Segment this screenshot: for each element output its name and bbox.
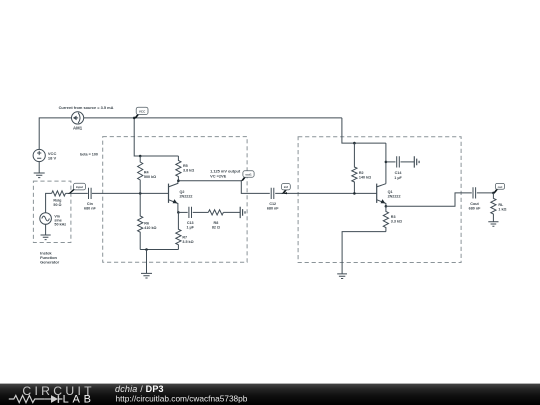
svg-text:C12: C12: [269, 202, 276, 206]
sideways ground after R8: [240, 207, 245, 218]
svg-text:RL: RL: [498, 203, 504, 207]
svg-text:out1: out1: [245, 173, 252, 177]
resistor R2 140k: [352, 143, 371, 193]
capacitor C13 1uF: [178, 207, 208, 230]
svg-text:3.5 kΩ: 3.5 kΩ: [182, 240, 193, 244]
net flag input: [68, 183, 86, 194]
svg-text:AM1: AM1: [73, 125, 83, 130]
svg-text:50 Ω: 50 Ω: [53, 203, 61, 207]
resistor R4 500k: [138, 156, 157, 193]
svg-text:3.3 kΩ: 3.3 kΩ: [391, 220, 402, 224]
ground under VCC source: [34, 162, 45, 178]
node Q1 emitter: [385, 205, 388, 208]
svg-text:input: input: [76, 185, 83, 189]
svg-text:680 nF: 680 nF: [469, 207, 481, 211]
capacitor Cout 680nF: [469, 187, 481, 210]
resistor RL 1k: [491, 193, 507, 222]
wire VCC drop into stage 2: [342, 118, 386, 143]
svg-text:680 nF: 680 nF: [84, 206, 96, 210]
svg-text:140 kΩ: 140 kΩ: [359, 176, 371, 180]
resistor R3 3.3k: [383, 206, 402, 231]
wire out1 down through C12: [241, 181, 269, 194]
wire R3 to ground stage 2: [342, 232, 386, 274]
logo resistor-diode symbol: [9, 395, 63, 403]
resistor R6 410k: [138, 193, 157, 249]
ground under RL: [488, 222, 498, 227]
wire Cout to out node: [477, 192, 494, 194]
wire bottom rail stage 1: [140, 249, 178, 251]
wire VCC drop into stage 1: [134, 118, 178, 156]
transistor Q1 2N2222: [377, 184, 401, 207]
dashed box: Instek Function Generator: [33, 181, 71, 242]
resistor R5 3.8k: [176, 156, 194, 181]
resistor R7 3.5k: [176, 212, 194, 249]
ground under Vin: [41, 224, 51, 239]
svg-text:R3: R3: [391, 215, 396, 219]
svg-text:Q1: Q1: [388, 190, 393, 194]
dashed box: stage 2: [298, 137, 461, 263]
node R4 top: [139, 155, 142, 158]
svg-text:R6: R6: [144, 221, 149, 225]
ground stage 1: [141, 250, 152, 279]
svg-text:1 kΩ: 1 kΩ: [498, 208, 506, 212]
svg-text:Generator: Generator: [40, 260, 60, 265]
annotation output level: [210, 169, 241, 179]
svg-text:1 µF: 1 µF: [394, 176, 402, 180]
svg-text:R2: R2: [359, 171, 364, 175]
node Q2 emitter: [177, 211, 180, 214]
capacitor C12 680nF: [267, 188, 279, 211]
wire collector to out1: [178, 180, 241, 182]
svg-text:http://circuitlab.com/cwacfna5: http://circuitlab.com/cwacfna5738pb: [116, 394, 248, 404]
ammeter AM1: [72, 112, 84, 131]
svg-text:Current from source = 3.5 mA: Current from source = 3.5 mA: [59, 105, 114, 110]
annotation Instek: [40, 251, 60, 265]
net flag out: [493, 183, 505, 193]
svg-text:VC =2VE: VC =2VE: [210, 173, 227, 178]
wire Rsig to Cin: [66, 192, 88, 194]
voltage source VCC 18V: [33, 149, 56, 161]
svg-text:LAB: LAB: [63, 393, 95, 405]
net flag in2: [281, 184, 290, 195]
node ground tap stage 1: [145, 248, 148, 251]
wire ammeter to VCC rail across top: [84, 117, 342, 119]
svg-text:3.8 kΩ: 3.8 kΩ: [183, 169, 194, 173]
svg-text:82 Ω: 82 Ω: [212, 226, 220, 230]
node base of Q2: [139, 192, 142, 195]
capacitor Cin 680nF: [84, 188, 96, 211]
svg-text:50 kHz: 50 kHz: [54, 223, 66, 227]
svg-text:C13: C13: [187, 221, 194, 225]
svg-text:out: out: [498, 185, 503, 189]
wire Q1 emitter to Cout: [386, 193, 472, 206]
svg-text:R7: R7: [182, 236, 187, 240]
svg-text:Rsig: Rsig: [53, 199, 61, 203]
svg-text:18 V: 18 V: [48, 156, 57, 161]
svg-text:in2: in2: [284, 185, 289, 189]
svg-text:500 kΩ: 500 kΩ: [144, 175, 156, 179]
net flag out1: [241, 171, 254, 182]
wire Vin to Rsig: [46, 193, 52, 212]
svg-text:2N2222: 2N2222: [388, 195, 401, 199]
ground stage 2: [337, 274, 347, 279]
transistor Q2 2N2222: [169, 181, 193, 213]
wire Cin to base rail: [92, 192, 169, 194]
dashed box: stage 1: [103, 137, 247, 263]
svg-text:2N2222: 2N2222: [180, 195, 193, 199]
node C14 tap: [385, 161, 388, 164]
sideways ground after C14: [414, 156, 419, 167]
svg-text:Q2: Q2: [180, 190, 185, 194]
wire VCC source to ammeter: [39, 118, 71, 150]
node R2 top: [353, 142, 356, 145]
svg-text:680 nF: 680 nF: [267, 206, 279, 210]
node out: [492, 192, 495, 195]
wire collector drop stage 2: [385, 143, 387, 184]
svg-text:Cin: Cin: [87, 202, 94, 206]
net flag VCC: [134, 107, 148, 119]
resistor Rsig 50: [52, 191, 66, 207]
svg-text:VCC: VCC: [139, 109, 146, 113]
svg-text:C14: C14: [395, 171, 403, 175]
resistor R8 82: [208, 210, 240, 230]
capacitor C14 1uF: [386, 156, 414, 180]
svg-text:Cout: Cout: [470, 202, 479, 206]
node Q2 collector: [177, 179, 180, 182]
wire C12 to Q1 base: [275, 192, 377, 194]
svg-text:1 µF: 1 µF: [186, 226, 194, 230]
svg-text:R8: R8: [214, 221, 219, 225]
svg-text:R5: R5: [183, 164, 188, 168]
node R2 bottom: [353, 192, 356, 195]
node VCC flag junction: [133, 117, 136, 120]
svg-text:beta = 100: beta = 100: [80, 153, 98, 157]
voltage source Vin sine: [40, 213, 66, 227]
svg-text:410 kΩ: 410 kΩ: [144, 226, 156, 230]
